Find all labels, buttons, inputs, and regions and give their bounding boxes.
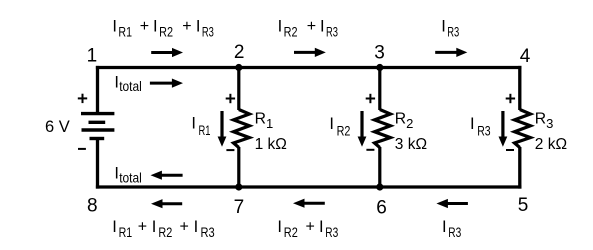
svg-text:R3: R3 bbox=[326, 24, 338, 40]
svg-text:I: I bbox=[320, 18, 325, 36]
wire R1 bottom to node7 bbox=[237, 147, 240, 187]
svg-text:+: + bbox=[182, 18, 191, 35]
current arrow bottom node6-node7 left bbox=[293, 199, 325, 208]
svg-text:I: I bbox=[441, 18, 446, 36]
polarity - R3 bbox=[506, 149, 514, 151]
svg-text:2: 2 bbox=[234, 42, 245, 63]
wire bottom node6-node5 bbox=[380, 185, 522, 188]
svg-text:+: + bbox=[307, 18, 316, 35]
wire node2 to R1 top bbox=[237, 68, 240, 111]
current arrow bottom node5-node6 left bbox=[436, 199, 468, 208]
svg-text:I: I bbox=[278, 18, 283, 36]
svg-text:R3: R3 bbox=[447, 24, 459, 40]
svg-text:I: I bbox=[470, 115, 475, 133]
svg-text:total: total bbox=[119, 169, 142, 185]
svg-text:7: 7 bbox=[234, 197, 245, 218]
svg-text:+: + bbox=[140, 18, 149, 35]
svg-text:1 kΩ: 1 kΩ bbox=[255, 136, 287, 153]
current arrow I_R2 down bbox=[358, 111, 367, 147]
current arrow top node3-node4 right bbox=[435, 48, 467, 57]
svg-text:R1: R1 bbox=[199, 122, 211, 138]
polarity + battery bbox=[78, 94, 87, 103]
polarity - R1 bbox=[226, 149, 234, 151]
svg-text:R3: R3 bbox=[477, 122, 491, 138]
svg-text:8: 8 bbox=[87, 196, 98, 217]
current arrow bottom node7-node8 left bbox=[151, 199, 182, 208]
svg-text:I: I bbox=[153, 18, 158, 36]
wire node3 to R2 top bbox=[378, 68, 381, 111]
svg-text:I: I bbox=[329, 115, 334, 133]
junction dot node 3 bbox=[376, 64, 383, 71]
wire R3 bottom to node5 (right edge) bbox=[518, 147, 521, 189]
svg-text:3 kΩ: 3 kΩ bbox=[395, 136, 427, 153]
resistor R3 zigzag bbox=[515, 110, 531, 148]
svg-text:R3: R3 bbox=[448, 224, 461, 240]
wire left battery - terminal to node8 bbox=[96, 139, 99, 189]
svg-text:4: 4 bbox=[520, 46, 531, 67]
junction dot node 7 bbox=[235, 183, 242, 190]
svg-text:I: I bbox=[442, 218, 447, 236]
svg-text:I: I bbox=[319, 218, 324, 236]
wire bottom node7-node6 bbox=[239, 185, 380, 188]
current arrow top node1-node2 right bbox=[151, 48, 183, 57]
polarity + R1 bbox=[226, 94, 235, 103]
polarity - R2 bbox=[366, 149, 374, 151]
svg-text:I: I bbox=[112, 18, 117, 36]
svg-text:I: I bbox=[196, 18, 201, 36]
svg-text:I: I bbox=[191, 115, 196, 133]
svg-text:6 V: 6 V bbox=[45, 118, 70, 136]
junction dot node 2 bbox=[235, 64, 242, 71]
svg-text:R2: R2 bbox=[337, 123, 351, 139]
current arrow I_total bottom left bbox=[151, 171, 183, 180]
svg-text:R1: R1 bbox=[119, 224, 133, 240]
svg-text:R2: R2 bbox=[395, 111, 414, 131]
svg-text:R3: R3 bbox=[535, 111, 554, 131]
wire top node2-node3 bbox=[239, 66, 380, 69]
svg-text:R3: R3 bbox=[202, 24, 214, 40]
resistor R2 zigzag bbox=[375, 110, 391, 148]
polarity - battery bbox=[78, 148, 86, 150]
svg-text:+: + bbox=[180, 218, 189, 235]
wire top node3-node4 bbox=[380, 66, 522, 69]
svg-text:5: 5 bbox=[518, 195, 529, 216]
svg-text:I: I bbox=[112, 218, 117, 236]
svg-text:I: I bbox=[152, 218, 157, 236]
polarity + R2 bbox=[366, 94, 375, 103]
battery B1 (6 V source) bbox=[81, 114, 114, 139]
svg-text:R1: R1 bbox=[118, 24, 132, 40]
svg-text:+: + bbox=[306, 218, 315, 235]
svg-text:R3: R3 bbox=[201, 224, 215, 240]
svg-text:3: 3 bbox=[374, 42, 385, 63]
svg-text:+: + bbox=[138, 218, 147, 235]
svg-text:R2: R2 bbox=[284, 224, 298, 240]
wire node4 to R3 top (right edge) bbox=[518, 66, 521, 110]
svg-text:R1: R1 bbox=[255, 111, 274, 131]
svg-text:R3: R3 bbox=[325, 224, 338, 240]
wire R2 bottom to node6 bbox=[378, 147, 381, 187]
polarity + R3 bbox=[506, 94, 515, 103]
svg-text:6: 6 bbox=[376, 198, 387, 219]
svg-text:I: I bbox=[194, 218, 199, 236]
svg-text:1: 1 bbox=[87, 46, 98, 67]
current arrow I_total top right bbox=[150, 79, 183, 88]
current arrow top node2-node3 right bbox=[294, 48, 326, 57]
svg-text:R2: R2 bbox=[158, 224, 172, 240]
svg-text:R2: R2 bbox=[159, 24, 173, 40]
wire bottom node8-node7 bbox=[96, 185, 239, 188]
resistor R1 zigzag bbox=[234, 110, 250, 148]
wire left node1 to battery + terminal bbox=[96, 66, 99, 112]
wire top node1-node2 bbox=[96, 66, 239, 69]
svg-text:I: I bbox=[277, 218, 282, 236]
current arrow I_R3 down bbox=[499, 111, 508, 147]
svg-text:total: total bbox=[119, 78, 142, 94]
current arrow I_R1 down bbox=[218, 111, 227, 147]
svg-text:R2: R2 bbox=[284, 24, 298, 40]
junction dot node 6 bbox=[376, 183, 383, 190]
svg-text:2 kΩ: 2 kΩ bbox=[535, 136, 567, 153]
